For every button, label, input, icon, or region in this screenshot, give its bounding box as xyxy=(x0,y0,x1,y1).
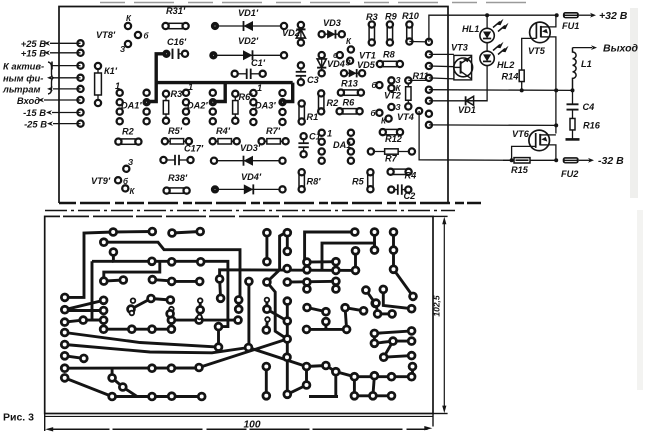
wire trace xyxy=(217,327,220,348)
svg-text:VD3: VD3 xyxy=(323,18,341,28)
svg-text:З: З xyxy=(128,158,133,167)
wire trace xyxy=(334,281,337,289)
wire trace xyxy=(112,368,123,387)
wire trace xyxy=(65,320,104,322)
resistor resistor R9 xyxy=(389,25,391,43)
wire VT3 base xyxy=(429,65,455,68)
resistor R7&#8242; xyxy=(262,140,286,142)
diode diode VD5 xyxy=(344,72,362,74)
svg-text:1: 1 xyxy=(115,81,120,91)
wire trace xyxy=(172,232,200,234)
svg-text:R8: R8 xyxy=(383,50,396,60)
svg-text:З: З xyxy=(396,103,401,112)
wire trace xyxy=(345,308,347,330)
svg-text:102,5: 102,5 xyxy=(432,295,442,317)
svg-text:VT9′: VT9′ xyxy=(91,176,111,186)
op-amp op-amp DA1' pad array xyxy=(117,90,123,96)
transistor VT6 (MOSFET) xyxy=(529,130,550,151)
wire trace xyxy=(172,280,200,283)
wire trace xyxy=(345,308,364,311)
wire to active filters row3 xyxy=(53,88,81,90)
wire trace xyxy=(237,300,240,309)
resistor resistor R6 mid xyxy=(340,110,360,112)
board bottom edge (dashed) xyxy=(59,202,481,205)
svg-text:FU2: FU2 xyxy=(561,169,579,179)
wire trace xyxy=(265,367,268,396)
wire trace xyxy=(170,309,173,329)
wire trace xyxy=(322,243,375,270)
transistor VT4 pads xyxy=(388,104,394,110)
wire trace xyxy=(65,367,199,370)
svg-text:R1: R1 xyxy=(307,112,319,122)
wire trace xyxy=(374,331,411,334)
printed circuit board outline xyxy=(45,216,433,413)
capacitor C16' xyxy=(179,53,186,55)
page-top noise dashes xyxy=(100,2,540,4)
wire trace xyxy=(65,232,113,297)
wire trace xyxy=(307,308,326,312)
svg-text:VD2′: VD2′ xyxy=(238,36,259,46)
wire VT3 collector xyxy=(429,53,454,55)
resistor resistor R3' xyxy=(165,94,167,121)
svg-text:С1′: С1′ xyxy=(251,58,266,68)
wire VT6 gate xyxy=(512,146,536,160)
wire trace xyxy=(384,356,412,358)
wire R10 bottom to edge pad xyxy=(409,41,429,43)
svg-text:R5: R5 xyxy=(352,177,365,187)
svg-text:З: З xyxy=(120,45,125,54)
svg-text:R38′: R38′ xyxy=(168,173,188,183)
diode diode VD4 xyxy=(321,55,323,73)
resistor R5&#8242; xyxy=(165,140,189,142)
wire trace xyxy=(267,309,287,321)
svg-text:DA1: DA1 xyxy=(333,140,351,150)
wire VT5 gate to R14 xyxy=(522,38,537,68)
svg-text:HL2: HL2 xyxy=(497,60,515,70)
op-amp op-amp DA2' pad array xyxy=(183,90,189,96)
wire trace xyxy=(92,261,104,320)
svg-text:-25 В: -25 В xyxy=(24,118,47,129)
wire trace xyxy=(394,232,414,296)
svg-text:R13: R13 xyxy=(341,79,358,89)
svg-text:R2: R2 xyxy=(122,127,135,137)
resistor resistor R7 xyxy=(371,151,412,153)
resistor R15 xyxy=(503,159,556,161)
svg-text:VD4′: VD4′ xyxy=(241,172,262,182)
wire trace xyxy=(65,345,249,353)
wire trace xyxy=(307,260,336,263)
transistor VT3 xyxy=(454,55,472,80)
wire trace xyxy=(265,300,268,309)
wire trace xyxy=(247,281,250,347)
node R14/rail xyxy=(520,88,524,92)
wire trace xyxy=(309,395,338,398)
node +32 rail junction xyxy=(485,13,489,17)
wire trace xyxy=(378,312,393,315)
svg-text:VD3′: VD3′ xyxy=(240,143,261,153)
svg-text:-15 В: -15 В xyxy=(23,107,46,118)
capacitor capacitor C17' xyxy=(164,159,176,161)
wire trace xyxy=(376,303,378,314)
LED HL1 xyxy=(486,15,488,28)
brace for filter rows xyxy=(48,62,54,94)
wire R14 bottom xyxy=(521,83,523,90)
diode diode VD4' xyxy=(215,188,283,190)
wire trace xyxy=(354,251,357,271)
resistor resistor R16 xyxy=(572,118,574,131)
diode diode VD1' xyxy=(215,25,284,27)
svg-text:R7′: R7′ xyxy=(266,126,281,136)
resistor resistor R31' xyxy=(166,25,186,27)
fuse fuse FU2 xyxy=(563,157,579,163)
svg-text:С2: С2 xyxy=(404,191,417,201)
wire trace xyxy=(267,270,280,282)
wire lower rail xyxy=(429,124,557,127)
wire VT6 drain xyxy=(549,134,556,136)
wire trace xyxy=(307,328,347,331)
PCB pad field xyxy=(110,229,117,236)
op-amp op-amp DA3' pad array xyxy=(250,90,256,96)
dimension line 100 horizontal xyxy=(44,414,46,432)
resistor resistor R3 xyxy=(371,25,373,43)
wire trace xyxy=(104,242,240,300)
wire trace xyxy=(123,387,152,397)
wire trace xyxy=(326,366,355,377)
wire trace xyxy=(113,230,152,233)
wire trace xyxy=(411,367,414,377)
transistor VT5 (MOSFET) xyxy=(530,22,551,43)
node output/L1 xyxy=(571,88,575,92)
wire FU2 to -32 arrow xyxy=(579,159,590,161)
wire trace xyxy=(65,309,104,312)
svg-text:+32 В: +32 В xyxy=(599,10,628,22)
resistor resistor R13 xyxy=(341,92,361,94)
border top dash overlay xyxy=(60,215,300,217)
resistor R4&#8242; xyxy=(213,140,237,142)
capacitor capacitor C1' xyxy=(235,73,247,75)
svg-text:VT8′: VT8′ xyxy=(96,30,116,40)
svg-text:VT5: VT5 xyxy=(528,46,546,56)
svg-text:Вход: Вход xyxy=(17,95,40,106)
svg-text:С17′: С17′ xyxy=(184,144,204,154)
wire trace xyxy=(287,367,306,395)
wire trace xyxy=(65,333,219,348)
svg-text:С4: С4 xyxy=(583,102,595,112)
wire trace xyxy=(152,280,171,281)
svg-text:R7: R7 xyxy=(385,154,398,164)
wire trace xyxy=(92,260,113,263)
wire trace xyxy=(324,322,327,330)
svg-text:VD1: VD1 xyxy=(458,105,476,115)
svg-text:R6: R6 xyxy=(343,98,356,108)
wire trace xyxy=(104,280,124,281)
wire input row xyxy=(44,99,81,101)
svg-text:VT1: VT1 xyxy=(359,51,376,61)
diode diode VD2 xyxy=(300,25,302,43)
wire trace xyxy=(220,279,221,298)
node FU2 junction xyxy=(554,158,558,162)
resistor resistor R2 left xyxy=(118,141,138,143)
wire trace xyxy=(384,341,393,357)
wire FU1 to +32 arrow xyxy=(579,14,592,16)
wire +32 feed from pad up/right xyxy=(429,15,557,42)
wire trace xyxy=(286,233,289,252)
wire trace xyxy=(104,262,160,281)
wire trace xyxy=(65,300,104,309)
transistor VT8 pads xyxy=(125,23,131,29)
svg-text:R5′: R5′ xyxy=(168,126,183,136)
svg-text:R8′: R8′ xyxy=(307,177,322,187)
wire output rail xyxy=(429,89,573,92)
svg-text:R14: R14 xyxy=(502,72,519,82)
relay K1' xyxy=(97,66,99,103)
wire trace xyxy=(383,289,411,308)
wire VT5 drain to +32 xyxy=(550,15,556,27)
wire trace xyxy=(373,376,375,396)
left edge connector pads xyxy=(77,40,83,46)
wire trace xyxy=(354,375,411,378)
svg-text:З: З xyxy=(346,59,351,68)
svg-text:FU1: FU1 xyxy=(562,21,579,31)
svg-text:б: б xyxy=(333,51,338,60)
wire HL2 to VD1 node xyxy=(465,66,487,101)
resistor resistor R5 xyxy=(369,172,371,189)
svg-text:VT3: VT3 xyxy=(451,43,468,53)
wire R11 top to edge pad xyxy=(408,79,429,81)
op-amp op-amp DA1 pad array xyxy=(319,130,325,136)
wire trace xyxy=(220,270,356,279)
node mid rail xyxy=(554,88,558,92)
wire trace xyxy=(286,301,289,394)
wire trace xyxy=(267,282,287,339)
resistor resistor R38' xyxy=(167,190,187,192)
diode diode VD3 xyxy=(322,33,342,35)
wire trace xyxy=(266,320,267,331)
diode VD1 xyxy=(465,100,487,102)
wire -15V row xyxy=(52,112,81,114)
wire trace xyxy=(374,341,411,343)
resistor resistor R12 xyxy=(383,131,400,133)
capacitor capacitor C1 xyxy=(303,136,305,143)
svg-text:DA1′: DA1′ xyxy=(121,101,142,111)
wire trace xyxy=(199,301,202,310)
wire trace xyxy=(373,232,376,250)
svg-text:R9: R9 xyxy=(385,12,398,22)
svg-text:R16: R16 xyxy=(583,121,601,131)
svg-text:Рис. 3: Рис. 3 xyxy=(3,412,34,424)
resistor resistor R4 xyxy=(391,171,409,173)
wire VT5 source down xyxy=(548,37,556,134)
wire trace xyxy=(65,378,112,397)
wire trace xyxy=(287,280,336,284)
wire trace xyxy=(199,339,287,368)
resistor resistor R6' xyxy=(234,94,236,121)
board right edge pad column xyxy=(426,39,432,45)
svg-text:ным фи-: ным фи- xyxy=(3,73,43,84)
svg-text:R15: R15 xyxy=(511,165,529,175)
wire trace xyxy=(171,319,238,322)
svg-text:VD4: VD4 xyxy=(327,59,345,69)
wire +25V row xyxy=(50,42,81,44)
ground xyxy=(572,130,574,139)
diode diode VD2' xyxy=(213,54,284,56)
svg-text:VT6: VT6 xyxy=(512,129,530,139)
node FU1 junction xyxy=(555,13,559,17)
wire trace xyxy=(366,290,375,303)
resistor resistor R8 xyxy=(380,63,400,65)
HL2 emission arrows xyxy=(497,42,504,49)
wire trace xyxy=(112,395,202,398)
wire -25V row xyxy=(53,123,81,125)
svg-text:100: 100 xyxy=(244,420,261,431)
svg-text:R12: R12 xyxy=(385,134,403,144)
svg-text:1: 1 xyxy=(327,129,332,139)
svg-text:VD2: VD2 xyxy=(282,28,301,38)
wire VT6 source to -32 xyxy=(547,145,556,160)
HL1 emission arrows xyxy=(497,19,504,26)
svg-text:DA3′: DA3′ xyxy=(255,101,276,111)
wire trace xyxy=(280,232,288,270)
component board outline xyxy=(59,7,448,204)
svg-text:R3: R3 xyxy=(366,12,378,22)
wire trace xyxy=(104,328,172,331)
resistor resistor R1 xyxy=(301,104,303,122)
resistor resistor R11 xyxy=(407,81,409,107)
LED HL2 xyxy=(486,43,488,52)
svg-text:R4: R4 xyxy=(405,171,417,181)
svg-text:R2: R2 xyxy=(327,98,340,108)
capacitor C4 xyxy=(572,90,574,104)
dimension line 102.5 vertical xyxy=(433,215,448,217)
wire VD1 line xyxy=(429,100,465,102)
svg-text:+15 В: +15 В xyxy=(21,48,47,59)
transistor VT9 pads xyxy=(123,166,129,172)
capacitor capacitor C2 xyxy=(391,189,398,191)
fold dash-dot line between figures xyxy=(45,210,455,212)
wire VT3 emitter xyxy=(429,78,454,79)
wire trace xyxy=(305,282,308,289)
svg-text:-32 В: -32 В xyxy=(598,155,624,167)
wire trace xyxy=(334,372,337,397)
resistor resistor R2 mid xyxy=(320,93,322,111)
extra pads xyxy=(167,310,174,317)
svg-text:VD1′: VD1′ xyxy=(238,8,259,18)
wire trace xyxy=(65,356,84,359)
wire trace xyxy=(265,233,268,262)
transistor VT2 pads xyxy=(388,77,394,83)
transistor VT1 pads xyxy=(348,46,354,52)
svg-text:R3′: R3′ xyxy=(171,89,186,99)
resistor resistor R8' xyxy=(301,172,303,189)
wire trace xyxy=(249,348,326,367)
wire trace xyxy=(353,377,356,396)
wire trace xyxy=(354,394,391,397)
wire to active filters row2 xyxy=(53,77,81,79)
svg-text:R31′: R31′ xyxy=(166,6,186,16)
svg-text:VD5: VD5 xyxy=(357,60,376,70)
svg-text:L1: L1 xyxy=(581,59,592,69)
wire trace xyxy=(305,232,355,262)
inductor L1 xyxy=(573,47,593,49)
diode diode VD3' xyxy=(214,160,283,162)
PCB small hole pads xyxy=(131,298,136,303)
fuse fuse FU1 xyxy=(563,12,579,18)
wire trace xyxy=(131,299,170,310)
svg-text:DA2′: DA2′ xyxy=(187,101,208,111)
svg-text:1: 1 xyxy=(188,82,193,92)
svg-text:К актив-: К актив- xyxy=(3,61,44,72)
node lower rail xyxy=(554,123,558,127)
svg-text:С3: С3 xyxy=(307,75,319,85)
svg-text:R4′: R4′ xyxy=(216,126,231,136)
svg-text:К1′: К1′ xyxy=(104,66,118,76)
resistor resistor R10 xyxy=(408,25,410,42)
wire trace xyxy=(373,333,376,343)
svg-text:Выход: Выход xyxy=(603,43,639,55)
wire trace xyxy=(113,252,151,261)
svg-text:HL1: HL1 xyxy=(462,24,479,34)
wire trace xyxy=(152,261,228,326)
resistor resistor R14 xyxy=(521,68,523,84)
svg-text:С16′: С16′ xyxy=(167,37,187,47)
capacitor capacitor C3 xyxy=(300,65,302,71)
node R15 left xyxy=(510,158,514,162)
svg-text:1: 1 xyxy=(257,83,262,93)
svg-text:R6′: R6′ xyxy=(239,92,254,102)
wire +15V row xyxy=(50,52,81,54)
thick wire bus C16..DA1..DA2..DA3 xyxy=(149,54,164,102)
svg-text:VT4: VT4 xyxy=(397,112,414,122)
svg-text:R10: R10 xyxy=(402,11,420,21)
wire -32 feed L-shape xyxy=(419,111,512,160)
svg-text:льтрам: льтрам xyxy=(2,84,40,95)
wire to active filters row1 xyxy=(52,65,81,67)
